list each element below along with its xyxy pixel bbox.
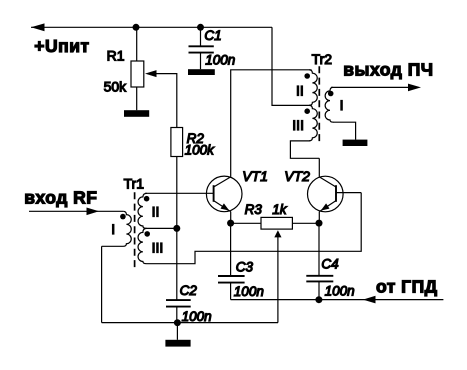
svg-text:VT2: VT2 [284, 168, 310, 184]
svg-text:II: II [296, 83, 304, 99]
node Tr1 tap / R2 / C2 [173, 225, 180, 232]
VT2 emitter stroke [319, 201, 336, 212]
arrow IF output [408, 84, 421, 92]
ground C1 [188, 69, 215, 75]
transistor VT2 [308, 176, 344, 212]
svg-text:I: I [340, 97, 344, 113]
VT1 emitter stroke [214, 201, 231, 212]
svg-text:R1: R1 [107, 48, 125, 64]
svg-text:+Uпит: +Uпит [34, 36, 89, 56]
wire RF input [29, 210, 123, 212]
wire R1 wiper to R2 [156, 74, 177, 128]
wire C2 ground stem [176, 323, 178, 340]
svg-text:вход RF: вход RF [24, 187, 97, 207]
svg-text:100n: 100n [234, 284, 264, 299]
node VT1 emitter [227, 220, 234, 227]
wire Tr1 winding I bottom to ground bus [101, 246, 103, 322]
svg-text:C3: C3 [236, 259, 254, 274]
Tr1 winding I [102, 211, 132, 246]
wire VT2 base return to Tr1 winding III [147, 193, 362, 264]
wire VT2 emitter [318, 212, 320, 223]
resistor R3 potentiometer [261, 217, 292, 229]
svg-text:50k: 50k [104, 79, 128, 95]
svg-text:100n: 100n [205, 53, 235, 68]
wire VT1 emitter to R3 [231, 222, 261, 224]
wire R3 to VT2 emitter [292, 222, 319, 224]
transformer Tr2 core [318, 66, 320, 145]
svg-text:100n: 100n [182, 309, 212, 324]
wire R1 top stem [136, 27, 138, 61]
wire top rail to Tr2 center tap [272, 27, 312, 105]
Tr1 winding I polarity dot [120, 214, 126, 220]
node C1 top [197, 24, 204, 31]
svg-text:C4: C4 [321, 256, 338, 271]
svg-text:III: III [292, 117, 304, 133]
ground C2 [165, 340, 190, 347]
R3 wiper arrow [274, 230, 281, 237]
svg-text:100k: 100k [185, 142, 216, 157]
resistor R1 potentiometer [131, 61, 144, 87]
capacitor C4 [318, 223, 320, 275]
ground R1 [124, 110, 149, 117]
wire VT1 base [145, 192, 214, 194]
wire R2 bottom to Tr1 tap [176, 157, 178, 229]
Tr2 winding III polarity dot [304, 108, 310, 114]
arrow LO input [363, 296, 376, 304]
wire VT1 collector to Tr2 winding II [231, 70, 312, 177]
capacitor C1 [200, 27, 202, 46]
arrow +U supply [31, 23, 45, 31]
VT1 emitter arrow [221, 203, 230, 210]
Tr1 winding III polarity dot [144, 231, 150, 237]
svg-text:Tr2: Tr2 [312, 51, 333, 67]
VT2 collector stroke [319, 177, 336, 187]
Tr2 winding II [309, 70, 317, 106]
R1 wiper arrow [145, 70, 157, 77]
wire LO input (от ГПД) [231, 299, 444, 301]
svg-text:100n: 100n [325, 283, 355, 298]
svg-text:I: I [111, 221, 115, 237]
wire R1 bottom [136, 87, 138, 110]
wire ground bus [102, 322, 278, 324]
wire VT2 collector [318, 158, 320, 177]
Tr2 winding III [309, 105, 317, 140]
capacitor C2 [176, 228, 178, 300]
wire +U top rail [31, 26, 272, 28]
transistor VT1 [206, 176, 242, 212]
svg-text:1k: 1k [272, 202, 288, 217]
svg-text:II: II [152, 203, 160, 219]
wire Tr1 tap [146, 227, 177, 229]
Tr2 winding I [325, 87, 333, 122]
svg-text:III: III [152, 239, 164, 255]
svg-text:от ГПД: от ГПД [376, 276, 438, 296]
resistor R2 [171, 128, 183, 157]
node R1 top [133, 24, 140, 31]
Tr2 winding II polarity dot [304, 73, 310, 79]
wire VT1 emitter [230, 212, 232, 223]
Tr2 winding I polarity dot [328, 91, 334, 97]
svg-text:R3: R3 [245, 202, 263, 217]
wire Tr2 winding I bottom [333, 122, 356, 139]
Tr1 winding II polarity dot [144, 196, 150, 202]
Tr1 winding III [138, 228, 146, 263]
ground Tr2 winding I [343, 140, 368, 146]
node VT2 emitter [316, 220, 323, 227]
VT1 collector stroke [214, 177, 231, 187]
node C4 / LO [315, 296, 322, 303]
VT1 base bar [213, 185, 215, 202]
wire Tr2 winding III to VT2 collector [290, 141, 319, 158]
svg-text:выход ПЧ: выход ПЧ [343, 59, 433, 79]
svg-text:C2: C2 [180, 283, 198, 298]
VT2 emitter arrow [321, 203, 330, 210]
svg-text:Tr1: Tr1 [124, 175, 145, 191]
wire IF output [331, 86, 409, 88]
wire R3 wiper to ground bus [277, 234, 279, 323]
svg-text:C1: C1 [204, 28, 221, 43]
VT2 base bar [335, 185, 337, 202]
arrow RF input [87, 208, 100, 216]
capacitor C3 [230, 223, 232, 276]
Tr1 winding II [138, 193, 147, 228]
wire VT2 base [336, 192, 361, 194]
transformer Tr1 core [134, 192, 136, 270]
node C2 ground [174, 319, 181, 326]
svg-text:VT1: VT1 [242, 168, 268, 184]
